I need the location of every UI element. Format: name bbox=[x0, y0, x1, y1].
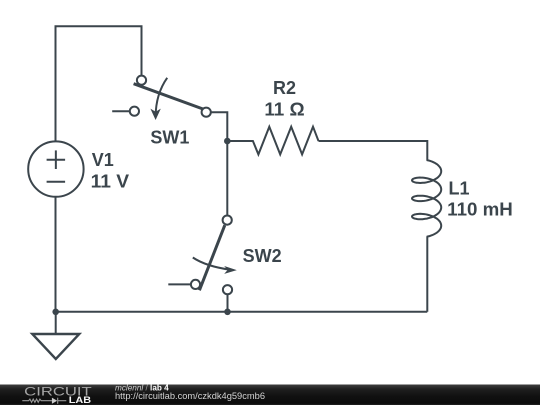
wire: V1 negative terminal down to bottom rail bbox=[55, 197, 57, 311]
SW1 actuation arrow bbox=[156, 78, 168, 117]
wire: junction to ground symbol bbox=[55, 312, 57, 334]
wire: node A down to SW2 input bbox=[226, 141, 228, 215]
SW1 blade bbox=[134, 84, 204, 110]
SW2 open throw terminal with stub bbox=[168, 283, 190, 285]
plus sign bbox=[47, 159, 66, 161]
svg-text:R2: R2 bbox=[273, 78, 296, 98]
switch SW1 bbox=[112, 76, 211, 120]
junction node A bbox=[224, 138, 231, 145]
wire: V1 positive terminal up left rail and across top to SW1 input bbox=[56, 26, 142, 141]
svg-text:11 V: 11 V bbox=[91, 171, 130, 191]
resistor R2 bbox=[227, 127, 318, 155]
SW1 top terminal bbox=[137, 76, 146, 85]
logo diode triangle bbox=[52, 398, 57, 404]
logo circuit squiggle with diode bbox=[22, 398, 66, 404]
SW1 open throw terminal with stub bbox=[112, 110, 129, 112]
svg-text:V1: V1 bbox=[92, 150, 114, 170]
svg-text:11 Ω: 11 Ω bbox=[264, 99, 304, 119]
svg-text:110 mH: 110 mH bbox=[447, 200, 513, 220]
SW1 output terminal bbox=[202, 108, 211, 117]
wire: bottom rail bbox=[56, 311, 428, 313]
junction at ground bbox=[52, 309, 59, 316]
footer bar bbox=[0, 385, 540, 405]
SW2 blade bbox=[199, 225, 224, 290]
ground bbox=[32, 334, 79, 359]
inductor L1 bbox=[412, 160, 441, 237]
wire: R2 to L1 bbox=[319, 141, 428, 160]
svg-text:http://circuitlab.com/czkdk4g5: http://circuitlab.com/czkdk4g59cmb6 bbox=[115, 391, 265, 401]
svg-text:SW2: SW2 bbox=[243, 246, 282, 266]
wire: L1 to bottom rail bbox=[426, 237, 428, 312]
SW2 actuation arrow bbox=[193, 258, 230, 270]
voltage source V1 bbox=[28, 141, 83, 196]
svg-text:SW1: SW1 bbox=[150, 128, 189, 148]
switch SW2 bbox=[168, 216, 237, 295]
minus sign bbox=[47, 181, 66, 183]
svg-text:L1: L1 bbox=[449, 179, 470, 199]
wire: SW1 output to node A bbox=[212, 112, 228, 141]
SW2 top terminal bbox=[223, 216, 232, 225]
svg-text:LAB: LAB bbox=[69, 395, 92, 405]
SW2 bottom terminal bbox=[223, 285, 232, 294]
wire: SW2 output to bottom rail bbox=[227, 295, 229, 312]
junction node B (SW2 to rail) bbox=[224, 309, 231, 316]
